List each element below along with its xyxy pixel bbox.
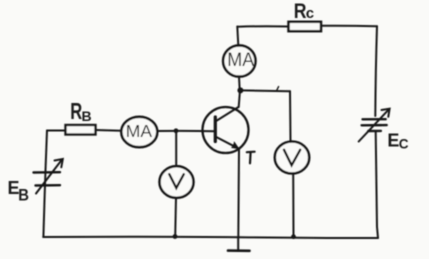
wire top rail left of RC [237, 25, 289, 27]
node base-V1 junction [174, 128, 179, 133]
milliammeter MA2 [223, 45, 255, 76]
wire V2 down to rail [292, 174, 294, 237]
wire V2 corner down [289, 91, 292, 141]
wire junction down to V1 [175, 131, 177, 166]
milliammeter MA1 [121, 117, 157, 147]
node V1-rail junction [173, 234, 178, 239]
wire emitter down to rail [237, 149, 240, 238]
transistor T [203, 107, 255, 163]
node V2-rail junction [291, 234, 296, 239]
svg-text:C: C [399, 136, 409, 151]
svg-text:MA: MA [227, 49, 254, 71]
voltmeter V2 [275, 142, 309, 174]
wire base left (EB to RB) [47, 130, 66, 132]
wire collector junction to V2 corner [241, 89, 290, 92]
svg-text:B: B [82, 108, 92, 124]
wire MA1 to transistor base [157, 130, 215, 132]
svg-text:R: R [294, 0, 307, 23]
svg-text:c: c [306, 5, 314, 22]
wire RB to MA1 [96, 129, 122, 132]
wire top rail right of RC [321, 25, 377, 27]
wire right rail lower [376, 132, 378, 238]
wire left rail [43, 131, 47, 238]
wire right rail upper [375, 26, 377, 116]
node collector junction [237, 87, 243, 93]
svg-text:MA: MA [126, 121, 153, 141]
battery EB variable source [8, 159, 63, 205]
resistor RC [289, 0, 322, 31]
voltmeter V1 [160, 166, 194, 198]
wire bottom rail [43, 237, 378, 238]
wire tick overshoot [277, 87, 279, 91]
wire V1 down to bottom rail [174, 198, 177, 237]
wire MA2 up to top rail [237, 27, 238, 46]
svg-text:E: E [387, 130, 399, 150]
battery EC variable source [359, 109, 409, 152]
wire junction up to MA2 [238, 77, 241, 90]
svg-text:B: B [18, 187, 29, 205]
resistor RB [66, 100, 96, 135]
ground [228, 238, 250, 251]
wire collector up to junction [239, 90, 240, 107]
